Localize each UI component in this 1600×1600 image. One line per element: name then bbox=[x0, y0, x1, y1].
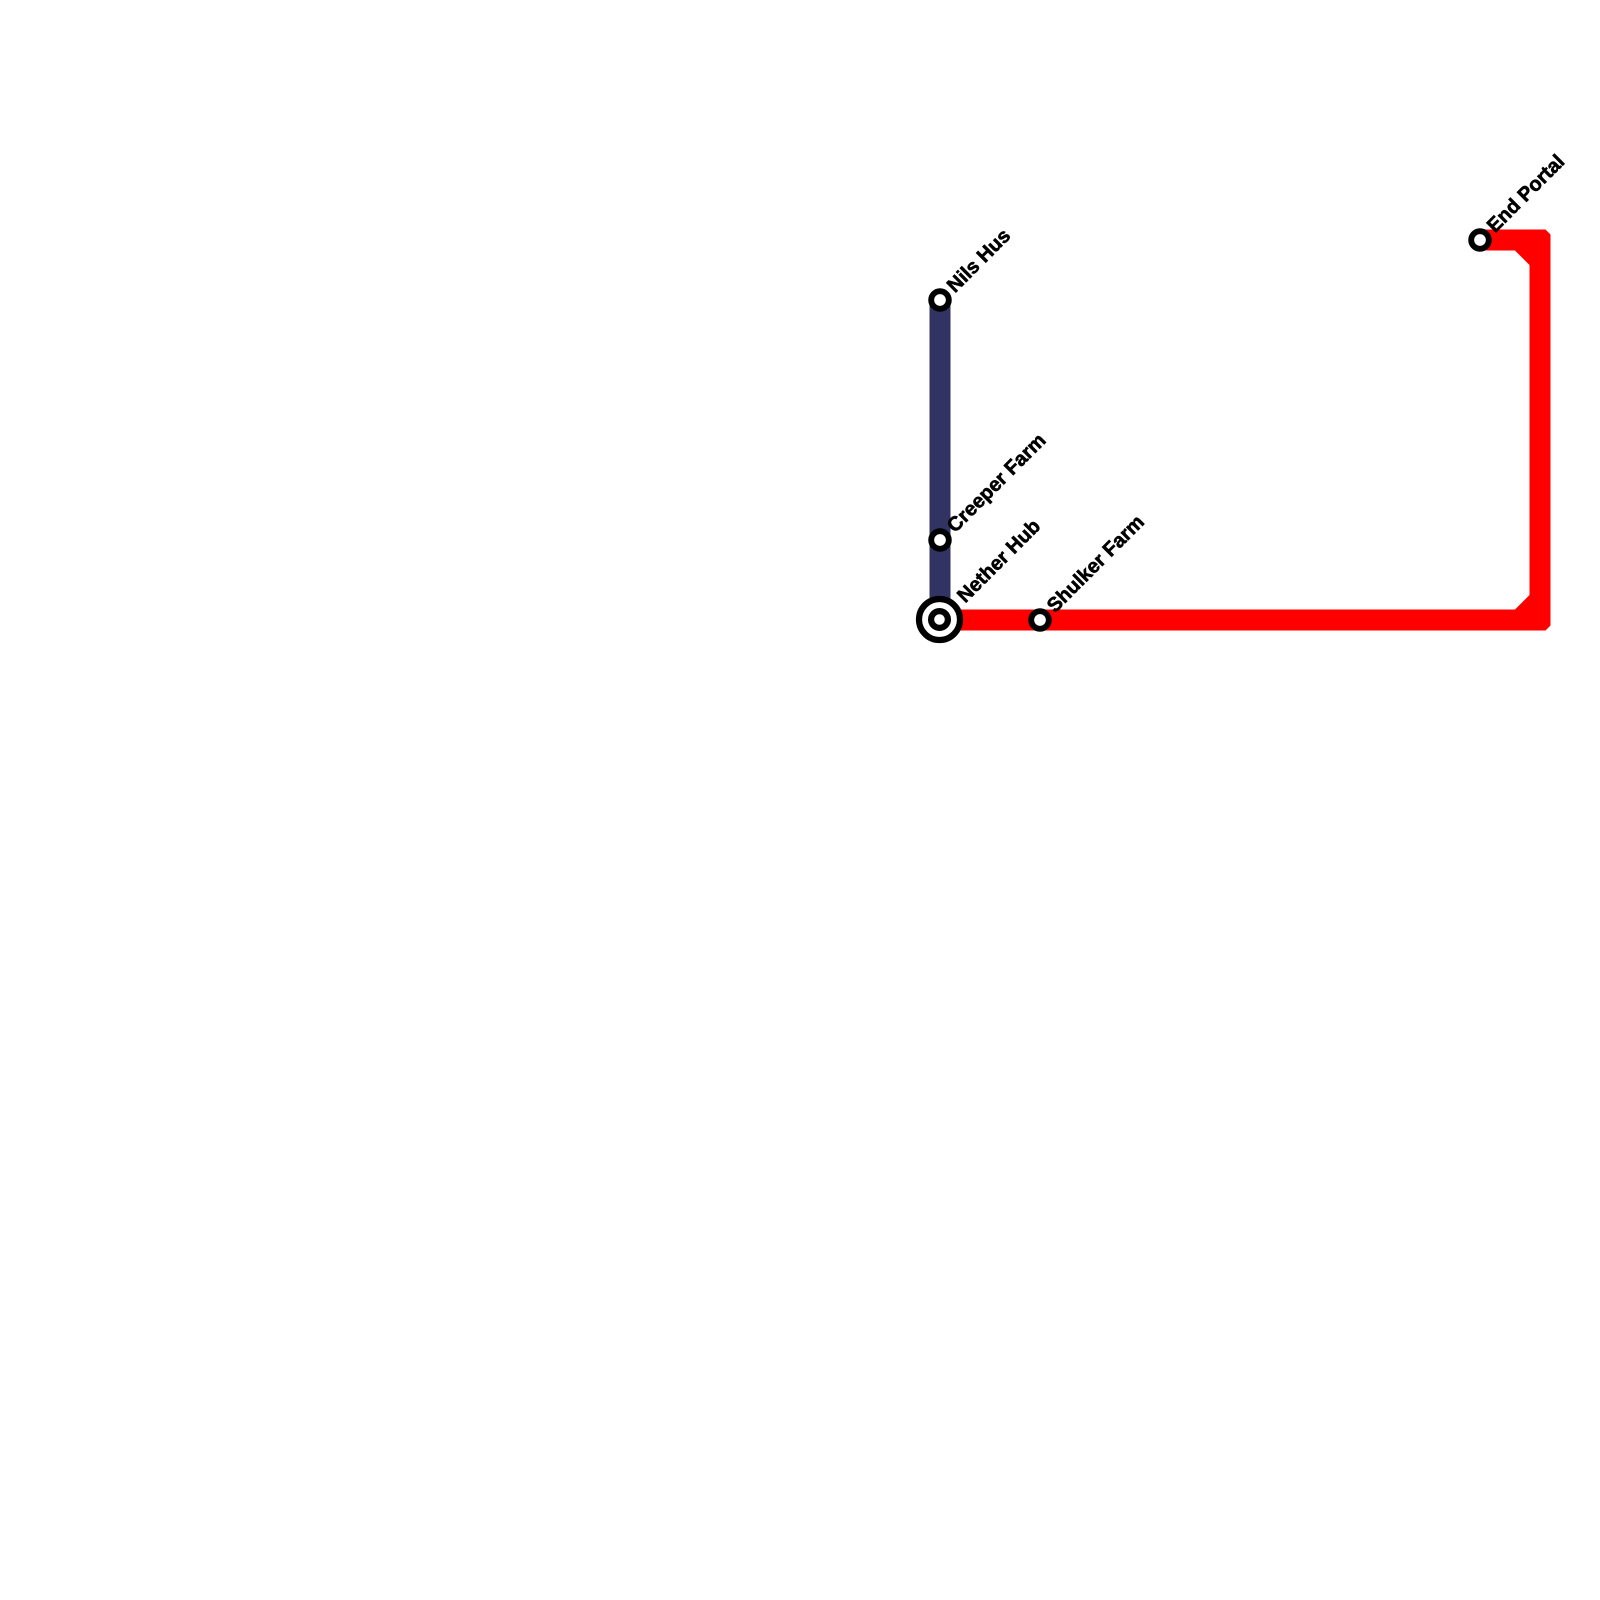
navy line: Nils Hus to Nether Hub bbox=[930, 300, 951, 620]
red line: Nether Hub - Shulker Farm - End Portal bbox=[940, 230, 1551, 631]
label: Nils Hus bbox=[943, 225, 1015, 297]
interchange station: Nether Hub (inner ring) bbox=[931, 611, 948, 628]
station: Nils Hus bbox=[931, 291, 949, 309]
label: Nether Hub bbox=[953, 515, 1045, 607]
label: End Portal bbox=[1483, 151, 1569, 237]
label: Creeper Farm bbox=[943, 430, 1051, 538]
station: End Portal bbox=[1471, 231, 1489, 249]
station: Creeper Farm bbox=[931, 531, 949, 549]
interchange station: Nether Hub (outer ring) bbox=[919, 599, 960, 640]
station: Shulker Farm bbox=[1031, 611, 1049, 629]
label: Shulker Farm bbox=[1043, 511, 1149, 617]
